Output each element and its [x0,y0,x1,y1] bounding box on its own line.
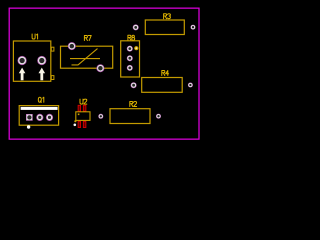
U1 pad 1 [18,56,27,65]
R8 pad 1 [127,46,133,52]
R8 outline [121,41,140,77]
R4 outline [142,78,183,93]
U2 white dot [74,124,77,127]
U2 pad bottom-right [83,122,86,128]
label R7 [84,36,91,41]
connector U1 [13,34,54,81]
via above R8 [133,24,139,30]
board outline (Edge) [9,8,199,139]
label U2 [80,99,87,104]
label R4 [162,71,169,76]
U2 pad bottom-left [78,122,81,128]
resistor R3 [145,14,184,35]
R8 pad 2 [127,55,133,61]
U1 arrow 2 (silk, up) [39,68,46,81]
via right of R4 [188,83,193,88]
R7 outline [61,46,113,68]
Q1 outline [19,106,58,126]
R7 pad 1 [68,42,76,50]
thermistor R7 [61,36,113,73]
regulator U2 [74,99,91,127]
Q1 pad 3 [46,114,53,121]
U2 pad top-left [78,105,81,111]
via right of R3 [191,25,196,30]
R8 pad 3 [127,65,133,71]
R2 outline [110,109,150,124]
U2 pin1 dot [78,114,80,116]
U2 yellow dot [74,120,76,122]
label R2 [130,102,137,107]
Q1 pad 2 [36,114,43,121]
U2 outline [76,112,90,121]
transistor Q1 [19,97,58,129]
via right of R2 [156,114,161,119]
label U1 [32,34,38,39]
label R3 [164,14,171,19]
R3 outline [145,20,184,35]
R7 diagonal symbol [72,49,98,65]
via below R8 [131,82,137,88]
U1 right tab pin 2 [51,76,54,80]
label R8 [128,35,135,40]
U1 pad 2 [37,56,46,65]
resistor R4 [142,71,183,93]
Q1 silk bar [21,107,58,110]
via (yellow) near R8 pad 1 [134,46,138,50]
R7 inner line [70,58,100,60]
trimpot R8 [121,35,140,77]
via left of R2 [98,114,103,119]
R7 pad 2 [96,64,104,72]
U1 right tab pin [51,47,54,51]
Q1 pad 1 (square) [26,114,33,121]
resistor R2 [110,102,150,124]
Q1 white dot [27,125,30,128]
label Q1 [38,97,44,102]
U1 outline [13,41,50,81]
U1 arrow 1 (silk, up) [19,68,26,81]
U2 pad top-right [83,105,86,111]
